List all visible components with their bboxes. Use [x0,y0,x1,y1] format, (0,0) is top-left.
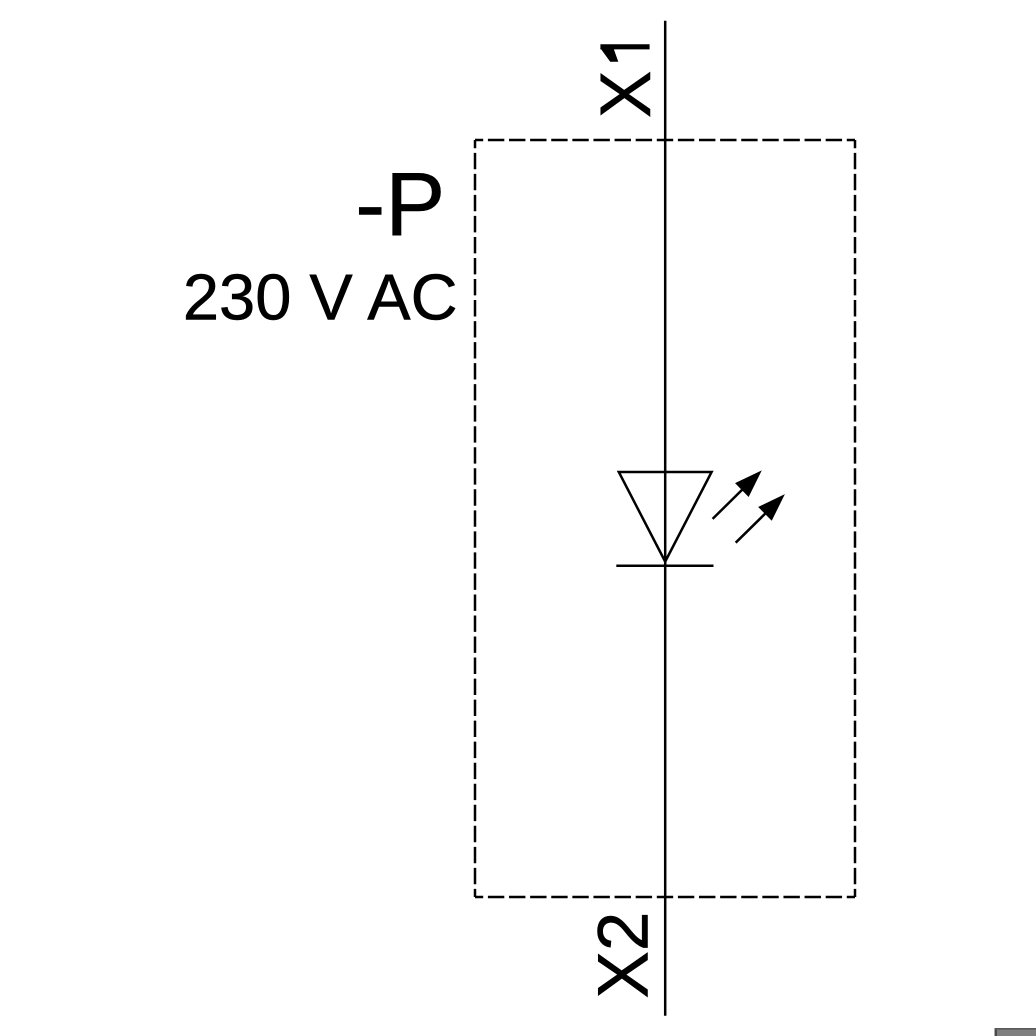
node X1 terminal label: 1 glyph flag [600,48,618,62]
lamp P enclosure right side [854,140,857,897]
LED emission arrow 1 head [736,471,761,496]
LED D1 cathode bar [616,564,713,567]
node X1 terminal label: 1 glyph stem [600,44,649,49]
LED emission arrow 2 head [759,495,784,520]
LED emission arrow 2 shaft [736,504,775,543]
svg-text:X2: X2 [585,912,664,999]
lamp P enclosure bottom side [475,896,855,899]
scrollbar corner artifact [995,1028,1036,1036]
svg-text:X: X [587,71,666,118]
wire: vertical conductor through lamp from X1 to X2 [664,21,667,1016]
lamp P enclosure left side [474,140,477,897]
lamp P enclosure (dashed outline) top side [475,139,855,142]
svg-text:-P: -P [355,155,445,255]
LED emission arrow 1 shaft [713,480,752,519]
LED D1 anode triangle [619,472,712,562]
svg-text:230 V AC: 230 V AC [183,260,458,333]
